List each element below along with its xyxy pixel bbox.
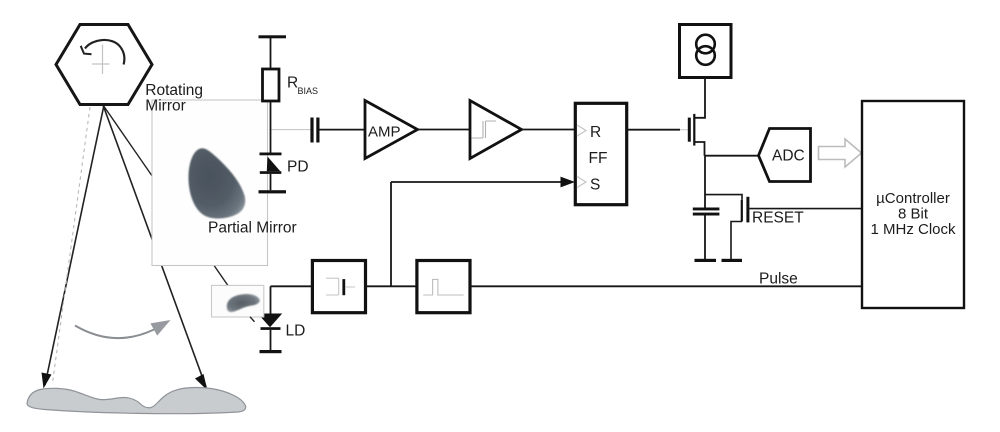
ground bar (cap) [695, 259, 717, 262]
supply rail bar (top) [259, 35, 287, 38]
wire gray tap to capacitor [272, 129, 311, 131]
rotation arc [85, 40, 124, 65]
rail bar (PD bottom) [259, 190, 287, 193]
svg-text:BIAS: BIAS [298, 86, 319, 96]
beam spread dashed line [53, 107, 91, 383]
wire node down to cap [704, 156, 706, 208]
integration capacitor C2 [693, 208, 720, 211]
photodiode PD cathode bar [260, 153, 282, 156]
transistor Q2 reset drain arm [705, 195, 742, 200]
sweep arc arrow [75, 326, 154, 339]
beam arrowhead right [195, 374, 208, 391]
set arrowhead into S [561, 177, 576, 188]
svg-text:RESET: RESET [752, 210, 804, 227]
wire LD to driver [271, 285, 313, 287]
svg-text:S: S [590, 177, 600, 194]
wire [320, 129, 366, 131]
wire [522, 129, 576, 131]
transistor Q2 gate bar [746, 197, 749, 223]
driver icon [326, 278, 355, 295]
wire [270, 38, 272, 69]
transistor Q1 source arm [694, 142, 705, 156]
transistor Q2 source arm [731, 222, 742, 260]
beam line right [103, 105, 206, 387]
wire FF output to gate [627, 129, 680, 131]
laser driver box [312, 261, 365, 313]
svg-text:ADC: ADC [772, 148, 805, 165]
transistor Q1 channel bar [693, 114, 695, 146]
data bus block arrow [819, 139, 862, 167]
svg-text:µController: µController [876, 190, 950, 207]
laser diode photo blob [227, 294, 260, 312]
pulse generator box [417, 261, 470, 313]
wire [270, 330, 272, 350]
svg-text:Pulse: Pulse [759, 270, 798, 287]
op-amp AMP [365, 101, 418, 159]
svg-text:PD: PD [287, 159, 309, 176]
gray gate lead [680, 129, 688, 131]
current source circles [696, 35, 715, 54]
node line to ADC [705, 155, 759, 157]
svg-text:Mirror: Mirror [145, 98, 185, 115]
beam arrowhead left [42, 373, 52, 389]
partial mirror photo box [152, 100, 268, 266]
partial mirror photo blob [188, 148, 245, 218]
laser diode LD triangle [258, 314, 283, 328]
svg-text:FF: FF [589, 150, 608, 167]
ground bar (reset) [722, 259, 743, 262]
transistor Q1 gate bar [688, 118, 691, 142]
flip-flop FF box [575, 103, 626, 204]
svg-text:AMP: AMP [368, 124, 401, 141]
photodiode PD anode bar [260, 171, 282, 174]
wire Pulse to microcontroller [470, 285, 862, 287]
wire LD anode [270, 286, 272, 313]
schmitt hysteresis icon [472, 121, 497, 138]
wire set line [391, 181, 561, 183]
wire [270, 174, 272, 190]
current source I1 box [680, 25, 732, 78]
wire [418, 129, 471, 131]
svg-text:R: R [590, 124, 601, 141]
beam line left [45, 105, 104, 385]
laser diode LD cathode bar [261, 327, 281, 330]
terrain target surface [27, 388, 246, 414]
ground bar (LD) [260, 350, 282, 353]
FF input chevron R [577, 125, 586, 136]
svg-text:Partial Mirror: Partial Mirror [208, 219, 297, 236]
comparator (schmitt trigger) [470, 101, 522, 159]
beam line to laser photo [103, 105, 228, 286]
svg-text:1 MHz Clock: 1 MHz Clock [870, 221, 956, 238]
photodiode PD triangle [267, 157, 281, 172]
wire vertical from pulse node [390, 182, 392, 286]
wire RESET [749, 208, 862, 210]
rotation arrowhead [81, 46, 92, 54]
hexagon center cross [92, 45, 110, 75]
sweep arrowhead [150, 320, 170, 336]
wire [270, 101, 272, 153]
resistor RBIAS [263, 69, 280, 101]
svg-text:LD: LD [286, 323, 306, 340]
svg-text:Rotating: Rotating [145, 82, 203, 99]
FF input chevron S [577, 177, 586, 188]
coupling capacitor C1 [310, 118, 313, 143]
wire [704, 216, 706, 260]
leader line to LD [250, 317, 255, 322]
microcontroller box [862, 101, 964, 308]
rotating mirror hexagon [56, 25, 152, 105]
pulse icon [423, 279, 464, 295]
laser diode photo box [212, 285, 264, 317]
ADC block [759, 129, 811, 182]
transistor Q2 channel bar [741, 200, 743, 222]
wire from current source [694, 78, 705, 118]
wire driver to pulse gen [366, 285, 417, 287]
svg-text:8 Bit: 8 Bit [898, 206, 929, 223]
